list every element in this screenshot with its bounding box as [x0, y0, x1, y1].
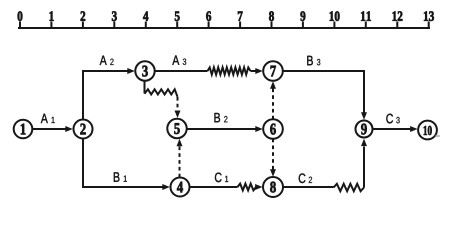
wire dummy 3 to 5 float zigzag [145, 89, 178, 97]
time scale label 10 [330, 11, 340, 20]
wire C2 float zigzag [334, 184, 365, 191]
node 5 circle [167, 119, 186, 138]
arrowhead dummy 3 to 5 at node 5 top [175, 111, 181, 119]
label C2 [299, 173, 312, 183]
arrowhead A2 at node 3 [127, 68, 135, 74]
arrowhead dummy 4 to 5 at node 5 bottom [177, 139, 183, 147]
time scale tick 4 [145, 22, 147, 29]
wire C2 riser up to node 9 [363, 147, 365, 188]
time scale tick 2 [82, 22, 84, 29]
time scale tick 12 [396, 22, 398, 29]
label C3 [386, 114, 399, 124]
time scale label 1 [50, 11, 54, 20]
time scale label 9 [300, 11, 305, 20]
wire dummy 3 to 5 dashed drop [177, 97, 179, 111]
wire dummy 6 to 8 dashed drop [272, 139, 274, 170]
node 7 number [271, 66, 276, 76]
wire node 2 up then right to node 3 (A2 shaft) [83, 71, 129, 120]
arrowhead C3 at node 10 [410, 126, 418, 132]
arrowhead dummy 6 to 7 at node 7 bottom [270, 81, 276, 89]
wire C2 shaft from node 8 [284, 186, 334, 188]
time scale label 2 [81, 11, 86, 20]
node 2 circle [74, 120, 93, 139]
time scale tick 5 [176, 22, 178, 29]
time scale tick 6 [208, 22, 210, 29]
label B1 [114, 172, 127, 181]
faint scan artifact [435, 135, 441, 137]
label A3 [172, 56, 186, 65]
node 1 circle [14, 120, 33, 139]
time scale tick 3 [113, 22, 115, 29]
node 3 number [142, 66, 147, 77]
node 8 number [270, 182, 276, 193]
node 9 circle [356, 121, 373, 138]
time scale tick 8 [271, 22, 273, 29]
node 9 number [361, 124, 367, 135]
node 1 number [21, 124, 26, 135]
node 10 circle [418, 121, 437, 140]
wire dummy 6 to 7 dashed riser [272, 89, 274, 120]
time scale label 3 [112, 11, 117, 20]
wire node 2 down then right to node 4 (B1 shaft) [83, 139, 164, 188]
wire A1 arrow shaft node 1 to node 2 [33, 128, 67, 130]
time scale tick 13 [428, 22, 430, 29]
time scale tick 1 [50, 22, 52, 29]
arrowhead A1 at node 2 [65, 126, 73, 132]
time scale label 5 [175, 12, 180, 21]
time scale tick 10 [333, 22, 335, 29]
arrowhead B1 at node 4 [162, 184, 170, 190]
arrowhead C1 at node 8 [255, 184, 263, 190]
time scale baseline [18, 27, 430, 29]
node 3 circle [135, 61, 154, 80]
label A2 [100, 56, 114, 65]
node 7 circle [263, 61, 283, 81]
label B2 [214, 113, 227, 122]
time scale tick 0 [19, 22, 21, 29]
arrowhead dummy 6 to 8 at node 8 top [270, 169, 276, 177]
node 4 circle [171, 178, 190, 197]
label A1 [41, 114, 55, 123]
node 6 circle [263, 119, 283, 139]
time scale tick 11 [365, 22, 367, 29]
wire C3 arrow shaft node 9 to node 10 [373, 128, 411, 130]
wire A3 float zigzag [208, 67, 251, 74]
node 10 number [424, 126, 432, 135]
label C1 [215, 173, 228, 183]
node 5 number [174, 123, 179, 134]
arrowhead C2 at node 9 bottom [361, 139, 367, 147]
time scale label 8 [269, 11, 274, 20]
time scale label 13 [424, 11, 434, 20]
time scale label 4 [143, 11, 148, 20]
time scale label 11 [361, 11, 371, 20]
wire B2 arrow shaft node 5 to node 6 [187, 128, 257, 130]
label B3 [307, 56, 320, 65]
time scale label 0 [18, 11, 23, 20]
wire dummy 4 to 5 dashed riser [179, 146, 181, 177]
time scale tick 7 [239, 22, 241, 29]
wire A3 shaft from node 3 [155, 70, 208, 72]
node 6 number [270, 124, 276, 135]
wire C1 float zigzag [238, 184, 257, 191]
node 2 number [80, 124, 85, 135]
time scale label 7 [238, 12, 243, 21]
arrowhead B2 at node 6 [255, 126, 262, 132]
wire B3 from node 7 right then down to node 9 [283, 71, 364, 113]
arrowhead B3 at node 9 top [361, 112, 367, 120]
time scale tick 9 [302, 22, 304, 29]
time scale label 12 [393, 11, 403, 20]
wire C1 shaft from node 4 [190, 186, 238, 188]
node 8 circle [263, 177, 283, 197]
wire dummy 3 to 5 stub below node 3 [144, 81, 146, 94]
time scale label 6 [206, 11, 211, 20]
node 4 number [177, 182, 183, 193]
arrowhead A3 at node 7 [255, 68, 262, 74]
